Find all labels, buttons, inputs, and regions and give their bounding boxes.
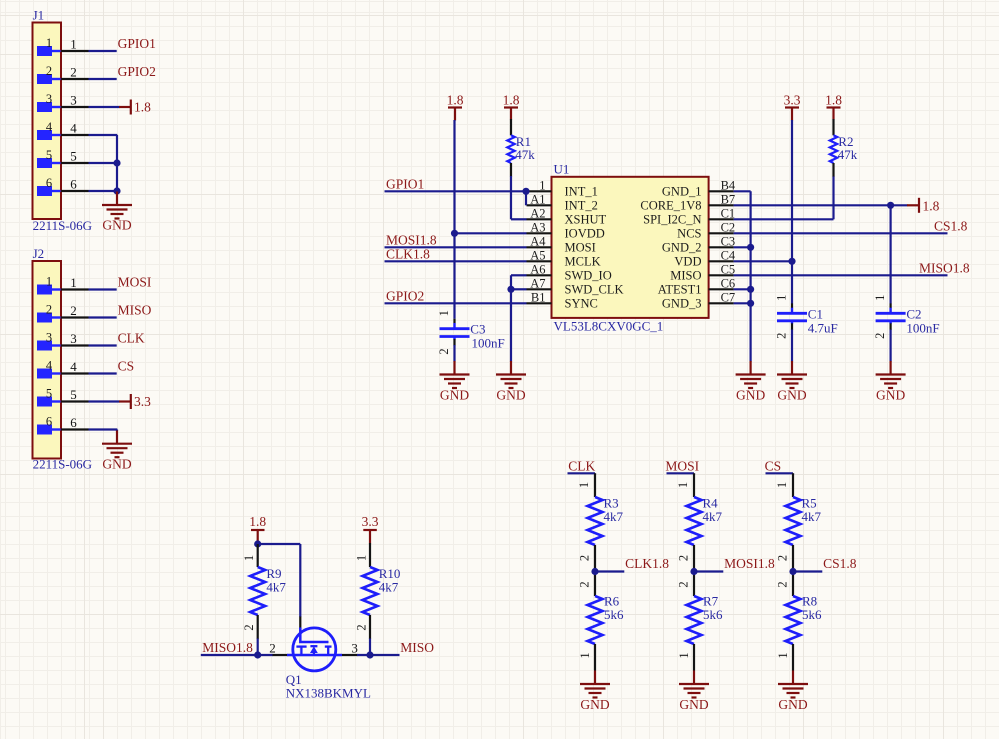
svg-text:ATEST1: ATEST1 [658, 283, 702, 297]
power 1.8 above R9 [249, 514, 266, 543]
wire NCS to CS1.8 [734, 218, 968, 233]
svg-text:3: 3 [351, 641, 358, 656]
ground GND under R7 [679, 671, 709, 713]
svg-text:2: 2 [677, 581, 691, 587]
ground GND under C3 [440, 361, 470, 403]
svg-text:5k6: 5k6 [802, 607, 822, 622]
wire SPI_I2C_N to R2 [734, 176, 834, 219]
svg-text:C5: C5 [721, 262, 736, 276]
svg-text:A2: A2 [530, 206, 545, 220]
svg-text:2: 2 [578, 581, 592, 587]
svg-text:6: 6 [70, 415, 77, 430]
svg-text:2: 2 [46, 64, 52, 78]
svg-text:2: 2 [677, 555, 691, 561]
wire CORE_1V8 to 1.8 [734, 204, 908, 206]
wire GPIO2 from J1.2 [89, 64, 156, 79]
svg-text:2211S-06G: 2211S-06G [33, 457, 92, 472]
capacitor C1 4.7uF [775, 295, 838, 339]
svg-text:IOVDD: IOVDD [565, 227, 605, 241]
svg-text:4k7: 4k7 [379, 580, 399, 595]
svg-text:4k7: 4k7 [266, 580, 286, 595]
power 1.8 above R1 [503, 92, 520, 119]
svg-text:J2: J2 [33, 246, 45, 261]
svg-text:C3: C3 [470, 322, 485, 337]
resistor R8 5k6 [776, 581, 823, 670]
op IC U1 body VL53L8CXV0GC_1 [552, 162, 709, 334]
svg-text:C7: C7 [721, 290, 736, 304]
junction MOSI1.8 node [690, 568, 697, 575]
svg-text:6: 6 [46, 176, 52, 190]
svg-text:SWD_CLK: SWD_CLK [565, 283, 624, 297]
svg-text:3: 3 [70, 93, 77, 108]
svg-text:5: 5 [70, 387, 77, 402]
svg-text:1: 1 [46, 275, 52, 289]
svg-text:2: 2 [776, 555, 790, 561]
svg-text:GND: GND [736, 388, 765, 403]
U1 pin A5 MCLK [527, 248, 601, 268]
wire CLK from J2.3 [89, 331, 145, 346]
svg-text:MISO: MISO [400, 640, 434, 655]
svg-text:1: 1 [46, 36, 52, 50]
U1 pin A7 SWD_CLK [527, 276, 624, 296]
svg-text:C2: C2 [721, 220, 736, 234]
junction R9 top [254, 540, 261, 547]
svg-text:GND: GND [777, 388, 806, 403]
svg-text:GND: GND [580, 697, 609, 712]
J2 pin 3 [37, 331, 89, 351]
svg-text:SWD_IO: SWD_IO [565, 269, 612, 283]
wire MOSI1.8 to MOSI [385, 232, 527, 247]
ground GND at J1 [102, 192, 132, 233]
svg-text:GPIO1: GPIO1 [118, 36, 156, 51]
svg-text:GND_2: GND_2 [662, 241, 702, 255]
svg-text:GND: GND [440, 388, 469, 403]
svg-text:4k7: 4k7 [802, 509, 822, 524]
svg-text:3.3: 3.3 [362, 514, 379, 529]
wire GPIO1 from J1.1 [89, 36, 156, 51]
svg-text:1: 1 [70, 275, 77, 290]
svg-text:2: 2 [775, 333, 789, 339]
wire GPIO2 to SYNC [385, 288, 527, 303]
svg-text:MISO1.8: MISO1.8 [919, 260, 970, 275]
capacitor C3 100nF [437, 310, 505, 355]
connector J2 body [33, 246, 93, 472]
U1 pin A2 XSHUT [527, 206, 607, 226]
junction R9 bottom [254, 651, 261, 658]
J1 pin 6 [37, 176, 89, 196]
svg-text:MOSI: MOSI [665, 458, 699, 473]
svg-text:CLK1.8: CLK1.8 [625, 556, 669, 571]
svg-text:NX138BKMYL: NX138BKMYL [286, 686, 371, 701]
svg-text:1: 1 [676, 482, 690, 488]
svg-text:A5: A5 [530, 248, 545, 262]
junction IOVDD [451, 230, 458, 237]
resistor R2 47k [830, 119, 858, 177]
power 1.8 above R2 [825, 92, 842, 119]
svg-text:GPIO2: GPIO2 [118, 64, 156, 79]
resistor R10 4k7 [354, 543, 400, 639]
wire 3.3 rail to VDD and C1 [734, 120, 792, 304]
svg-text:GND_1: GND_1 [662, 185, 702, 199]
svg-text:1: 1 [677, 652, 691, 658]
svg-text:1: 1 [354, 555, 368, 561]
svg-text:CS: CS [118, 359, 135, 374]
wire R9 to MISO1.8 [257, 639, 259, 656]
svg-text:2: 2 [437, 348, 451, 354]
resistor R1 47k [507, 119, 535, 177]
svg-text:1: 1 [242, 555, 256, 561]
svg-text:A1: A1 [530, 192, 545, 206]
svg-text:100nF: 100nF [906, 320, 939, 335]
svg-text:MCLK: MCLK [565, 255, 601, 269]
svg-text:C6: C6 [721, 276, 736, 290]
J1 pin 5 [37, 148, 89, 168]
J2 pin 4 [37, 359, 89, 379]
svg-text:C3: C3 [721, 234, 736, 248]
U1 pin B4 GND_1 [662, 178, 736, 198]
svg-text:47k: 47k [838, 147, 858, 162]
wire MOSI in [665, 458, 699, 474]
wire SWD_IO SWD_CLK to gnd [511, 275, 527, 361]
transistor Q1 NX138BKMYL [273, 617, 371, 701]
wire CLK in [568, 458, 596, 474]
wire R10 to MISO [369, 639, 371, 656]
svg-text:4k7: 4k7 [703, 509, 723, 524]
J1 pin 3 [37, 92, 89, 112]
svg-text:GND: GND [778, 697, 807, 712]
svg-text:1: 1 [539, 178, 545, 192]
svg-text:SPI_I2C_N: SPI_I2C_N [643, 213, 701, 227]
svg-text:2: 2 [354, 624, 368, 630]
power 3.3 at J2.5 [89, 394, 152, 409]
svg-text:CS: CS [765, 458, 782, 473]
power 3.3 above R10 [362, 514, 379, 544]
svg-text:3.3: 3.3 [784, 92, 801, 107]
junction CORE_1V8 [887, 202, 894, 209]
U1 pin C4 VDD [674, 248, 736, 268]
svg-text:GPIO1: GPIO1 [386, 176, 424, 191]
wire MISO to MISO1.8 [734, 260, 970, 275]
svg-text:1.8: 1.8 [923, 198, 940, 213]
svg-text:MISO1.8: MISO1.8 [202, 640, 253, 655]
svg-text:MOSI1.8: MOSI1.8 [386, 232, 437, 247]
wire MISO1.8 net [201, 640, 276, 656]
svg-text:1.8: 1.8 [503, 92, 520, 107]
svg-text:A4: A4 [530, 234, 546, 248]
wire MISO net [351, 640, 434, 656]
wire MISO from J2.2 [89, 303, 152, 318]
wire J1.4-6 to gnd [89, 135, 118, 192]
junction ATEST1 [747, 286, 754, 293]
svg-text:47k: 47k [515, 147, 535, 162]
wire GPIO1 to INT_1 [385, 176, 527, 205]
U1 pin A4 MOSI [527, 234, 596, 254]
svg-text:4: 4 [70, 121, 77, 136]
junction CLK1.8 node [591, 568, 598, 575]
svg-text:4: 4 [46, 359, 53, 373]
svg-text:GND: GND [102, 457, 131, 472]
svg-text:MOSI: MOSI [565, 241, 596, 255]
svg-text:C2: C2 [906, 306, 921, 321]
svg-text:MISO: MISO [670, 269, 701, 283]
svg-text:2: 2 [242, 624, 256, 630]
junction GND_2 [747, 244, 754, 251]
wire C2 column [889, 205, 891, 303]
wire C3 to gnd [453, 345, 455, 362]
junction INT pins [522, 188, 529, 195]
wire MOSI from J2.1 [89, 275, 152, 290]
J1 pin 1 [37, 36, 89, 56]
svg-text:MOSI: MOSI [118, 275, 152, 290]
svg-text:1.8: 1.8 [134, 100, 151, 115]
wire CLK1.8 stub [595, 556, 669, 572]
svg-text:U1: U1 [554, 162, 570, 177]
svg-text:B7: B7 [721, 192, 736, 206]
U1 pin A1 INT_2 [527, 192, 598, 212]
svg-text:A3: A3 [530, 220, 545, 234]
svg-text:2: 2 [269, 641, 276, 656]
svg-text:CLK: CLK [118, 331, 145, 346]
J1 pin 2 [37, 64, 89, 84]
wire J2.6 to gnd [89, 430, 118, 432]
wire MOSI1.8 stub [694, 556, 775, 572]
svg-text:2211S-06G: 2211S-06G [33, 218, 92, 233]
J2 pin 1 [37, 275, 89, 295]
svg-text:3.3: 3.3 [134, 394, 151, 409]
U1 pin C5 MISO [670, 262, 735, 282]
ground GND under R6 [580, 671, 610, 713]
svg-text:5k6: 5k6 [604, 607, 624, 622]
wire CS1.8 stub [793, 556, 857, 572]
svg-text:1: 1 [775, 295, 789, 301]
svg-text:MISO: MISO [118, 303, 152, 318]
svg-text:VDD: VDD [674, 255, 701, 269]
wire 1.8 to Q1 gate [258, 544, 301, 617]
svg-text:2: 2 [578, 555, 592, 561]
svg-text:1: 1 [577, 482, 591, 488]
svg-text:1.8: 1.8 [249, 514, 266, 529]
resistor R3 4k7 [577, 473, 624, 596]
svg-text:1: 1 [578, 652, 592, 658]
power 3.3 rail [784, 92, 801, 120]
U1 pin A6 SWD_IO [527, 262, 612, 282]
ground GND under U1 right [736, 361, 766, 403]
svg-text:INT_1: INT_1 [565, 185, 598, 199]
svg-text:1.8: 1.8 [825, 92, 842, 107]
svg-text:J1: J1 [33, 8, 45, 23]
ground GND under SWD [496, 361, 526, 403]
connector J1 body [33, 8, 93, 234]
svg-text:A6: A6 [530, 262, 545, 276]
svg-text:VL53L8CXV0GC_1: VL53L8CXV0GC_1 [554, 319, 664, 334]
svg-text:2: 2 [70, 65, 77, 80]
svg-text:CLK: CLK [568, 458, 595, 473]
J2 pin 5 [37, 387, 89, 407]
J2 pin 6 [37, 415, 89, 435]
U1 pin 1 INT_1 [527, 178, 598, 198]
ground GND under C1 [777, 361, 807, 403]
svg-text:GND: GND [102, 218, 131, 233]
svg-text:5: 5 [46, 387, 52, 401]
svg-text:XSHUT: XSHUT [565, 213, 607, 227]
U1 pin C2 NCS [677, 220, 735, 240]
svg-text:6: 6 [70, 177, 77, 192]
svg-text:CORE_1V8: CORE_1V8 [640, 199, 701, 213]
svg-text:1.8: 1.8 [447, 92, 464, 107]
svg-text:2: 2 [46, 303, 52, 317]
resistor R5 4k7 [775, 473, 822, 596]
svg-text:1: 1 [775, 482, 789, 488]
junction J1.5 [113, 159, 120, 166]
U1 pin B7 CORE_1V8 [640, 192, 735, 212]
svg-text:GPIO2: GPIO2 [386, 288, 424, 303]
ground GND under C2 [876, 361, 906, 403]
U1 pin C1 SPI_I2C_N [643, 206, 735, 226]
svg-text:2: 2 [873, 333, 887, 339]
svg-text:INT_2: INT_2 [565, 199, 598, 213]
ground GND at J2 [102, 431, 132, 472]
resistor R9 4k7 [242, 544, 286, 639]
wire 1.8 rail to C3 and IOVDD [455, 120, 527, 319]
wire CLK1.8 to MCLK [385, 246, 527, 261]
svg-text:SYNC: SYNC [565, 297, 598, 311]
J1 pin 4 [37, 120, 89, 140]
U1 pin C6 ATEST1 [658, 276, 735, 296]
svg-text:100nF: 100nF [472, 336, 505, 351]
svg-text:GND: GND [876, 388, 905, 403]
junction VDD [788, 258, 795, 265]
junction J1.6 [113, 187, 120, 194]
svg-text:B1: B1 [531, 290, 546, 304]
svg-text:3: 3 [46, 92, 52, 106]
wire GND_1 GND_2 ATEST1 GND_3 to gnd [734, 191, 751, 361]
svg-text:1: 1 [437, 310, 451, 316]
wire CS in [765, 458, 793, 474]
svg-text:5: 5 [46, 148, 52, 162]
svg-text:1: 1 [776, 652, 790, 658]
wire CS from J2.4 [89, 359, 135, 374]
wire R1 to XSHUT [510, 176, 512, 219]
svg-text:5: 5 [70, 149, 77, 164]
junction SWD_CLK [507, 286, 514, 293]
svg-text:1: 1 [70, 37, 77, 52]
capacitor C2 100nF [873, 295, 940, 339]
svg-text:2: 2 [776, 581, 790, 587]
ground GND under R8 [778, 671, 808, 713]
svg-text:1: 1 [873, 295, 887, 301]
resistor R7 5k6 [677, 581, 724, 670]
svg-text:A7: A7 [530, 276, 545, 290]
wire C2 to gnd [889, 330, 891, 362]
junction R10 bottom [366, 651, 373, 658]
junction CS1.8 node [789, 568, 796, 575]
svg-text:3: 3 [70, 331, 77, 346]
svg-text:4.7uF: 4.7uF [808, 320, 838, 335]
U1 pin C7 GND_3 [662, 290, 735, 310]
svg-text:4: 4 [46, 120, 53, 134]
svg-text:6: 6 [46, 415, 52, 429]
svg-text:3: 3 [46, 331, 52, 345]
U1 pin C3 GND_2 [662, 234, 735, 254]
svg-text:CS1.8: CS1.8 [823, 556, 857, 571]
svg-text:CS1.8: CS1.8 [934, 218, 968, 233]
U1 pin A3 IOVDD [527, 220, 605, 240]
svg-text:NCS: NCS [677, 227, 701, 241]
resistor R4 4k7 [676, 473, 723, 596]
U1 pin B1 SYNC [527, 290, 598, 310]
wire C1 to gnd [791, 330, 793, 362]
power 1.8 rail left [447, 92, 464, 120]
J2 pin 2 [37, 303, 89, 323]
power 1.8 right bar [907, 198, 940, 214]
svg-text:C1: C1 [721, 206, 736, 220]
svg-text:C1: C1 [808, 306, 823, 321]
svg-text:CLK1.8: CLK1.8 [386, 246, 430, 261]
junction GND_3 [747, 300, 754, 307]
svg-text:MOSI1.8: MOSI1.8 [724, 556, 775, 571]
svg-text:4: 4 [70, 359, 77, 374]
svg-text:2: 2 [70, 303, 77, 318]
resistor R6 5k6 [578, 581, 625, 670]
svg-text:GND_3: GND_3 [662, 297, 702, 311]
svg-text:GND: GND [679, 697, 708, 712]
svg-text:5k6: 5k6 [703, 607, 723, 622]
power 1.8 at J1.3 [89, 100, 152, 115]
svg-text:4k7: 4k7 [604, 509, 624, 524]
svg-text:GND: GND [496, 388, 525, 403]
